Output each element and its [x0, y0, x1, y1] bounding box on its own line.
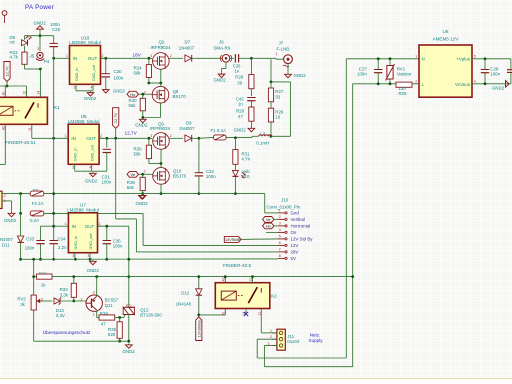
- power symbol GND2 under R40: [142, 118, 144, 119]
- regulator module U7 LM2596_Modul: [68, 213, 97, 253]
- power symbol GND2 right: [506, 81, 510, 88]
- wire J10 pin4 stub: [266, 231, 278, 233]
- wire to F2 fuse: [20, 194, 22, 214]
- svg-text:Q2: Q2: [159, 40, 165, 45]
- pin 7 J10 28V: [278, 251, 285, 253]
- junction R39 top: [141, 173, 144, 176]
- net tag 12VStdB: [224, 236, 241, 242]
- capacitor C31 100n: [106, 138, 108, 147]
- wire RV2 wiper to D13: [42, 300, 53, 302]
- pin 8 J10 5V: [278, 257, 285, 259]
- wire U7 gnd pins to rail: [74, 258, 77, 261]
- svg-text:56k: 56k: [134, 152, 142, 157]
- net tag Ho: [127, 91, 139, 97]
- junction R33 bottom: [72, 300, 75, 303]
- capacitor C30 100n: [104, 57, 107, 60]
- svg-text:3: 3: [93, 291, 95, 295]
- svg-text:3,3V: 3,3V: [56, 313, 65, 318]
- svg-text:R30: R30: [134, 146, 143, 151]
- junction R33 top: [72, 275, 75, 278]
- wire pin2 to fuse F3: [1, 194, 3, 196]
- svg-text:J5: J5: [30, 54, 35, 59]
- wire to Q8 top: [160, 83, 162, 87]
- wire Q9 bottom node: [160, 149, 162, 163]
- wire triac gate: [124, 315, 126, 318]
- wire U10 bottom pins: [76, 90, 93, 92]
- svg-text:14: 14: [37, 91, 41, 95]
- wire K2 A2 up: [224, 277, 226, 283]
- power symbol GND2 under J7: [287, 73, 289, 74]
- svg-text:5: 5: [474, 54, 476, 58]
- junction R24 top: [148, 57, 151, 60]
- svg-text:A1: A1: [2, 91, 6, 95]
- svg-text:0,1mH: 0,1mH: [256, 141, 269, 146]
- junction C28 bottom: [484, 82, 487, 85]
- svg-text:3: 3: [74, 86, 76, 90]
- pin 3 J10 Horizontal: [278, 225, 285, 227]
- svg-text:7: 7: [279, 248, 281, 252]
- power symbol GND2 under R28: [250, 127, 252, 128]
- junction C32 bottom: [198, 192, 201, 195]
- wire RV2 bottom: [33, 310, 35, 341]
- svg-text:J7: J7: [279, 40, 284, 45]
- pin 2 J10 Vertikal: [278, 218, 285, 220]
- svg-text:Überspannungsschutz: Überspannungsschutz: [43, 329, 91, 336]
- wire D13 to Q11 base: [60, 300, 86, 302]
- junction C34 bottom: [52, 258, 55, 261]
- svg-text:BS170: BS170: [173, 174, 187, 179]
- junction D10 bottom: [234, 192, 237, 195]
- svg-text:Gnd: Gnd: [291, 211, 300, 216]
- svg-text:GND_in: GND_in: [74, 67, 79, 81]
- svg-text:100n: 100n: [206, 174, 216, 179]
- svg-text:1N4007: 1N4007: [179, 126, 195, 131]
- svg-text:3,3k: 3,3k: [60, 292, 69, 297]
- junction Q9/Q10 node: [160, 162, 163, 165]
- svg-text:GND_out: GND_out: [90, 144, 95, 161]
- power flag top-left corner: [2, 11, 7, 16]
- svg-text:100n: 100n: [114, 75, 124, 80]
- wire U7 OUT drop: [128, 226, 130, 307]
- junction C33 bottom: [39, 258, 42, 261]
- wire rail2 to U6: [353, 83, 396, 85]
- svg-text:AMEM5 12V: AMEM5 12V: [433, 37, 460, 42]
- wire J11 pin3 loop outer: [264, 345, 277, 347]
- svg-text:OUT: OUT: [85, 224, 95, 229]
- svg-text:GND_in: GND_in: [73, 236, 78, 250]
- svg-text:D9: D9: [186, 120, 192, 125]
- wire Q11 collector: [96, 277, 98, 296]
- svg-text:10: 10: [275, 114, 280, 119]
- svg-text:A1: A1: [222, 311, 226, 315]
- junction Q10 source: [160, 192, 163, 195]
- svg-text:100n: 100n: [113, 243, 123, 248]
- svg-text:C25: C25: [52, 27, 61, 32]
- svg-text:8: 8: [279, 254, 281, 258]
- pin 4 J10 On: [278, 231, 285, 233]
- relay K1 FINDER-40.51: [0, 97, 47, 124]
- svg-text:GND2: GND2: [294, 73, 307, 78]
- svg-text:47: 47: [101, 322, 106, 327]
- junction R27 top: [270, 81, 273, 84]
- svg-text:39: 39: [237, 81, 242, 86]
- svg-text:4.7K: 4.7K: [241, 157, 250, 162]
- svg-text:18V: 18V: [133, 52, 142, 57]
- capacitor C29 offscreen: [510, 59, 512, 70]
- junction 12.7V tag: [114, 137, 117, 140]
- wire J7 pin to divider: [275, 57, 277, 60]
- svg-text:Ve: Ve: [130, 172, 135, 177]
- junction main vertical at U5 IN: [52, 137, 55, 140]
- svg-text:2: 2: [279, 215, 281, 219]
- junction F2 left: [19, 212, 22, 215]
- svg-text:4.7k: 4.7k: [10, 54, 19, 59]
- svg-text:U6: U6: [443, 29, 449, 34]
- svg-text:Varistor: Varistor: [397, 72, 412, 77]
- svg-text:2: 2: [144, 169, 146, 173]
- svg-text:01x03: 01x03: [287, 339, 300, 344]
- no-connect X on K2 pin14: [245, 309, 247, 315]
- pin 6 J10 12V: [278, 244, 285, 246]
- wire D7 to J6: [192, 57, 223, 59]
- svg-text:Ve: Ve: [266, 217, 271, 222]
- junction triac gnd: [127, 340, 130, 343]
- svg-text:Vertikal: Vertikal: [291, 217, 305, 222]
- svg-text:100n: 100n: [25, 246, 35, 251]
- svg-text:100n: 100n: [357, 71, 367, 76]
- junction vertical B R32 rail: [351, 275, 354, 278]
- svg-text:GND2: GND2: [34, 20, 47, 25]
- power symbol GND2 on rail: [141, 194, 143, 195]
- junction K2 A2: [224, 275, 227, 278]
- svg-text:GND2: GND2: [135, 123, 148, 128]
- wire J11 pin2 loop inner: [257, 338, 277, 340]
- pin 5 J10 12V Std By: [278, 238, 285, 240]
- power symbol GND2 under J6: [221, 73, 223, 74]
- svg-text:PA Power: PA Power: [25, 4, 54, 11]
- svg-text:FINDER-40.5: FINDER-40.5: [223, 263, 252, 268]
- wire U7 IN: [54, 225, 64, 227]
- power symbol GND2 under U5: [92, 172, 94, 173]
- junction OUT drop rail: [127, 258, 130, 261]
- svg-text:12: 12: [23, 91, 27, 95]
- svg-text:Horizontal: Horizontal: [291, 224, 311, 229]
- svg-text:R25: R25: [399, 91, 408, 96]
- svg-text:12V Std By: 12V Std By: [291, 237, 314, 242]
- svg-text:100n: 100n: [490, 71, 500, 76]
- svg-text:5: 5: [279, 235, 281, 239]
- power symbol GND2 under U7: [92, 260, 94, 261]
- svg-text:N: N: [422, 57, 425, 62]
- svg-text:1n: 1n: [238, 102, 243, 107]
- svg-text:SMA-RX: SMA-RX: [214, 45, 231, 50]
- svg-text:BS170: BS170: [173, 94, 187, 99]
- svg-text:IRFR9024: IRFR9024: [150, 126, 171, 131]
- svg-text:BT136-500: BT136-500: [140, 313, 162, 318]
- svg-text:4: 4: [91, 86, 93, 90]
- svg-text:1: 1: [415, 54, 417, 58]
- svg-text:F-LNB: F-LNB: [277, 47, 290, 52]
- svg-text:RV2: RV2: [17, 297, 26, 302]
- svg-text:2: 2: [102, 54, 104, 58]
- svg-text:LM2596_Modul: LM2596_Modul: [68, 119, 100, 124]
- wire J7 shell gnd: [287, 64, 289, 73]
- svg-text:4: 4: [89, 166, 91, 170]
- svg-text:C33: C33: [26, 237, 35, 242]
- wire D12 to K2 A1: [199, 314, 226, 316]
- svg-text:3: 3: [72, 166, 74, 170]
- svg-text:12.7V: 12.7V: [113, 113, 118, 124]
- power symbol GND2 crowbar: [128, 344, 130, 345]
- wire U10 IN: [54, 57, 65, 59]
- wire triac MT1 to gnd: [128, 315, 130, 342]
- svg-text:1: 1: [66, 54, 68, 58]
- connector J11 01x03: [277, 329, 285, 350]
- wire Q11 emitter to R34: [96, 310, 98, 317]
- global label 12.7V left: [4, 62, 10, 82]
- svg-text:GND2: GND2: [4, 218, 17, 223]
- wire U5 OUT rail: [99, 137, 152, 139]
- varistor RV1: [389, 57, 392, 60]
- junction GND node: [39, 34, 42, 37]
- svg-text:Ho: Ho: [266, 224, 272, 229]
- svg-text:11: 11: [257, 312, 261, 316]
- svg-text:OUT: OUT: [88, 56, 98, 61]
- junction R30 top: [148, 137, 151, 140]
- capacitor C28 100n: [484, 59, 486, 70]
- wire F2 to staircase: [44, 212, 143, 214]
- svg-text:47: 47: [238, 114, 243, 119]
- svg-text:GND2: GND2: [87, 268, 100, 273]
- svg-text:2.2n: 2.2n: [58, 245, 67, 250]
- svg-text:GND_in: GND_in: [73, 147, 78, 161]
- svg-text:4: 4: [474, 80, 476, 84]
- wire K1 pin11 to U5: [31, 124, 33, 138]
- svg-text:1: 1: [93, 312, 95, 316]
- page border line: [0, 378, 512, 380]
- junction C28 top: [484, 57, 487, 60]
- svg-text:C34: C34: [57, 236, 66, 241]
- svg-text:1n: 1n: [235, 68, 240, 73]
- wire D11 column: [20, 213, 22, 235]
- junction R26 top: [250, 57, 253, 60]
- svg-text:1k: 1k: [41, 283, 46, 288]
- junction K2 pin12: [251, 275, 254, 278]
- junction OUT drop R32 rail: [127, 275, 130, 278]
- junction C32 top: [198, 137, 201, 140]
- svg-text:GND2: GND2: [84, 96, 97, 101]
- svg-text:0.2A: 0.2A: [30, 218, 39, 223]
- svg-text:GND2: GND2: [113, 88, 126, 93]
- svg-text:28V: 28V: [291, 250, 299, 255]
- power symbol GND2 under R39: [142, 194, 144, 195]
- wire staircase 12V: [142, 213, 144, 245]
- wire L3 left to F1: [226, 136, 252, 138]
- regulator module U5 LM2596_Modul: [68, 124, 99, 164]
- wire J7 down: [270, 59, 272, 82]
- svg-text:IN: IN: [71, 136, 76, 141]
- svg-text:GND2: GND2: [234, 128, 247, 133]
- svg-text:4: 4: [88, 254, 90, 258]
- junction R29 bottom: [270, 135, 273, 138]
- net tag Ho at J10: [263, 223, 275, 229]
- wire U6 outputs: [472, 58, 511, 60]
- wire U7 OUT: [98, 225, 129, 227]
- svg-text:Conn_01x08_Pin: Conn_01x08_Pin: [267, 204, 301, 209]
- wire GND horizontal: [25, 35, 54, 37]
- wire main 12V vertical: [53, 58, 55, 240]
- svg-text:R28: R28: [236, 108, 245, 113]
- junction Q2/Q8 node: [159, 82, 162, 85]
- junction F2 vertical crossing: [52, 212, 55, 215]
- wire R30 to node: [149, 163, 161, 165]
- junction C31 top: [105, 137, 108, 140]
- wire 28V staircase: [115, 138, 117, 219]
- svg-text:F2 2A: F2 2A: [32, 201, 44, 206]
- svg-text:6: 6: [279, 241, 281, 245]
- wire D9 to F1: [192, 137, 199, 139]
- svg-text:1: 1: [276, 52, 278, 56]
- wire Q10 source to rail: [160, 184, 162, 193]
- svg-text:GND2: GND2: [136, 201, 149, 206]
- wire crowbar gnd rail: [34, 340, 129, 342]
- svg-text:2: 2: [170, 54, 172, 58]
- svg-text:R26: R26: [235, 75, 244, 80]
- junction C36 bottom: [105, 258, 108, 261]
- svg-text:GND2: GND2: [123, 349, 136, 354]
- wire Q9 drain to D9: [169, 137, 183, 139]
- svg-text:33: 33: [275, 95, 280, 100]
- wire K2 pin11 down: [260, 309, 262, 333]
- svg-text:1: 1: [279, 209, 281, 213]
- svg-text:Q11: Q11: [105, 303, 114, 308]
- svg-text:5V: 5V: [291, 256, 296, 261]
- module U6 AMEM5 12V: [419, 45, 472, 97]
- wire GND2 stem: [39, 29, 41, 36]
- svg-text:IRFR9024: IRFR9024: [151, 45, 172, 50]
- wire bottom rail 5V: [21, 258, 278, 260]
- wire J11 pin1: [261, 332, 277, 334]
- svg-text:J6: J6: [219, 40, 224, 45]
- svg-text:D11: D11: [2, 242, 10, 247]
- svg-text:12,7V: 12,7V: [125, 131, 138, 136]
- junction F3 left: [19, 192, 22, 195]
- junction R40 top: [141, 93, 144, 96]
- svg-text:12VStdBy: 12VStdBy: [196, 320, 201, 337]
- junction D11 bottom: [19, 258, 22, 261]
- svg-text:1N4148: 1N4148: [176, 302, 192, 307]
- power symbol GND2 under U10: [90, 91, 92, 92]
- svg-text:2: 2: [4, 194, 6, 198]
- svg-text:1: 1: [65, 222, 67, 226]
- junction R35 top: [118, 316, 121, 319]
- wire L3 right: [271, 135, 291, 137]
- svg-text:K1: K1: [54, 105, 60, 110]
- junction Q11 collector: [95, 275, 98, 278]
- net tag Ve at J10: [263, 217, 275, 223]
- resistor R25 120: [396, 82, 412, 87]
- svg-text:100n: 100n: [102, 179, 112, 184]
- wire Q2 bottom: [160, 69, 162, 83]
- wire J6 gnd: [225, 62, 227, 68]
- wire K1 A2 down: [4, 124, 6, 164]
- svg-text:R27: R27: [275, 89, 284, 94]
- svg-text:1: 1: [65, 134, 67, 138]
- svg-text:4: 4: [279, 228, 281, 232]
- wire pin14 K1: [39, 69, 41, 97]
- capacitor C26 1n: [230, 57, 234, 59]
- junction R35 bottom: [118, 340, 121, 343]
- power symbol GND2 under C30: [105, 88, 107, 89]
- junction R23/P4 node: [39, 68, 42, 71]
- svg-text:P4: P4: [44, 59, 50, 64]
- net tag Ve: [127, 171, 139, 177]
- wire Ho to Q8 gate: [139, 93, 153, 95]
- wire 12.7V tag to K1: [6, 82, 8, 87]
- svg-text:2: 2: [37, 47, 39, 51]
- wire C26 to J7: [251, 57, 276, 59]
- svg-text:IN: IN: [73, 56, 78, 61]
- svg-text:K2: K2: [271, 294, 277, 299]
- wire R23 bottom: [24, 64, 26, 69]
- junction D12 bottom: [197, 314, 200, 317]
- svg-text:1N4007: 1N4007: [179, 45, 195, 50]
- wire R34 to gate node: [115, 317, 124, 319]
- wire rail drop to J10 pin1: [264, 194, 266, 213]
- wire Ve to Q10 gate: [139, 173, 153, 175]
- junction R39 gnd rail: [141, 192, 144, 195]
- svg-text:2k: 2k: [20, 302, 25, 307]
- wire R32 rail: [34, 276, 37, 278]
- svg-text:OUT: OUT: [86, 136, 96, 141]
- svg-text:Supply: Supply: [309, 338, 324, 343]
- wire bypass right branch: [271, 81, 291, 83]
- wire rail1 to U6: [346, 58, 419, 60]
- junction R31 top: [234, 136, 237, 139]
- fuse F2 0.2A: [30, 211, 44, 216]
- wire to P4: [39, 36, 41, 51]
- wire K2 pin12 up: [252, 277, 254, 283]
- svg-text:820: 820: [108, 332, 116, 337]
- junction R40 gnd: [141, 116, 144, 119]
- global label 12.7V vertical mid: [113, 108, 119, 129]
- svg-text:2: 2: [99, 222, 101, 226]
- svg-text:C30: C30: [114, 69, 123, 74]
- svg-text:+Vplus: +Vplus: [456, 57, 471, 62]
- svg-text:Ho: Ho: [130, 92, 136, 97]
- svg-text:F1 0.2A: F1 0.2A: [211, 128, 226, 133]
- junction R32 left: [32, 275, 35, 278]
- junction D12 top: [197, 275, 200, 278]
- svg-text:1: 1: [270, 329, 272, 333]
- relay K2 FINDER-40.51: [215, 283, 269, 309]
- svg-text:3: 3: [279, 222, 281, 226]
- connector left edge: [0, 191, 2, 208]
- svg-text:12V: 12V: [291, 243, 299, 248]
- svg-text:56k: 56k: [127, 185, 135, 190]
- svg-text:2: 2: [170, 134, 172, 138]
- svg-text:3: 3: [150, 54, 152, 58]
- svg-text:On: On: [291, 230, 297, 235]
- pin 1 J10 Gnd: [278, 212, 285, 214]
- svg-text:LM2596_Modul: LM2596_Modul: [67, 207, 99, 212]
- svg-text:D7: D7: [185, 40, 191, 45]
- svg-text:56k: 56k: [134, 70, 142, 75]
- wire U5 gnd pins: [75, 170, 107, 172]
- svg-text:LM2596_Modul: LM2596_Modul: [69, 40, 101, 45]
- power symbol GND2 left: [11, 212, 13, 213]
- wire pin1 to gnd: [2, 200, 12, 202]
